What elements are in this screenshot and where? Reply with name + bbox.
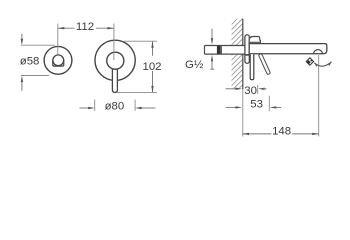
svg-text:148: 148 xyxy=(272,126,291,138)
svg-text:112: 112 xyxy=(76,21,94,33)
svg-text:ø80: ø80 xyxy=(105,101,125,113)
svg-text:53: 53 xyxy=(250,98,263,110)
svg-text:G½: G½ xyxy=(185,59,204,71)
svg-text:ø58: ø58 xyxy=(20,55,40,67)
svg-text:30: 30 xyxy=(244,85,257,97)
svg-text:102: 102 xyxy=(142,61,161,73)
